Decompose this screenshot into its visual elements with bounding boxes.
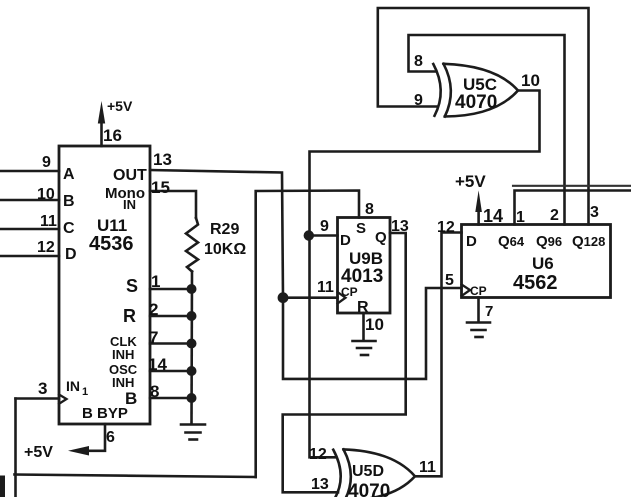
svg-text:1: 1 <box>516 209 525 226</box>
svg-text:11: 11 <box>317 279 334 296</box>
svg-text:B: B <box>63 193 75 210</box>
svg-text:3: 3 <box>590 204 599 221</box>
svg-text:13: 13 <box>391 218 409 235</box>
svg-text:8: 8 <box>365 201 374 218</box>
svg-text:7: 7 <box>149 328 158 347</box>
svg-text:D: D <box>466 233 477 250</box>
svg-text:R: R <box>123 306 136 326</box>
svg-text:10: 10 <box>365 315 384 334</box>
svg-text:CP: CP <box>470 284 487 298</box>
svg-text:R29: R29 <box>210 221 239 238</box>
svg-text:10: 10 <box>37 186 55 203</box>
svg-text:9: 9 <box>320 218 329 235</box>
svg-text:5: 5 <box>445 272 454 289</box>
svg-text:14: 14 <box>483 206 503 226</box>
svg-text:INH: INH <box>112 375 134 390</box>
svg-text:U5D: U5D <box>352 463 384 480</box>
svg-text:Q: Q <box>375 229 387 246</box>
svg-text:D: D <box>65 246 77 263</box>
svg-text:U6: U6 <box>532 254 554 273</box>
svg-text:9: 9 <box>42 154 51 171</box>
svg-text:4562: 4562 <box>513 272 558 294</box>
svg-text:10KΩ: 10KΩ <box>204 241 246 258</box>
svg-text:12: 12 <box>309 446 327 463</box>
svg-text:4070: 4070 <box>455 92 497 113</box>
svg-text:CP: CP <box>341 285 358 299</box>
svg-text:2: 2 <box>550 207 559 224</box>
svg-text:OUT: OUT <box>113 167 147 184</box>
svg-text:11: 11 <box>40 213 57 230</box>
svg-text:1: 1 <box>82 386 88 398</box>
svg-text:Q96: Q96 <box>536 233 562 250</box>
svg-text:4070: 4070 <box>348 481 390 497</box>
svg-text:2: 2 <box>149 300 158 319</box>
svg-text:15: 15 <box>151 178 170 197</box>
svg-text:+5V: +5V <box>24 444 53 461</box>
svg-text:S: S <box>356 220 366 237</box>
svg-text:A: A <box>63 166 75 183</box>
svg-text:Q64: Q64 <box>498 233 525 250</box>
svg-text:6: 6 <box>106 429 115 446</box>
svg-text:4536: 4536 <box>89 233 134 255</box>
svg-text:Q128: Q128 <box>572 233 605 250</box>
svg-text:16: 16 <box>103 126 122 145</box>
svg-text:+5V: +5V <box>455 172 486 191</box>
svg-text:11: 11 <box>419 459 436 476</box>
svg-text:C: C <box>63 220 75 237</box>
svg-text:8: 8 <box>150 382 159 401</box>
svg-text:13: 13 <box>311 476 329 493</box>
svg-text:13: 13 <box>153 150 172 169</box>
svg-text:14: 14 <box>148 355 167 374</box>
svg-text:IN: IN <box>123 197 136 212</box>
svg-text:8: 8 <box>414 53 423 70</box>
svg-text:S: S <box>126 276 138 296</box>
svg-text:9: 9 <box>414 92 423 109</box>
svg-text:INH: INH <box>112 347 134 362</box>
svg-text:4013: 4013 <box>341 266 383 287</box>
svg-text:1: 1 <box>151 272 160 291</box>
svg-text:7: 7 <box>485 303 493 320</box>
svg-text:3: 3 <box>38 379 47 398</box>
svg-text:+5V: +5V <box>107 98 133 114</box>
svg-text:D: D <box>340 232 351 249</box>
svg-text:R: R <box>357 299 369 316</box>
svg-text:10: 10 <box>521 71 540 90</box>
svg-text:12: 12 <box>437 219 455 236</box>
svg-text:B BYP: B BYP <box>82 405 128 422</box>
svg-text:12: 12 <box>37 239 55 256</box>
svg-text:IN: IN <box>66 378 80 394</box>
